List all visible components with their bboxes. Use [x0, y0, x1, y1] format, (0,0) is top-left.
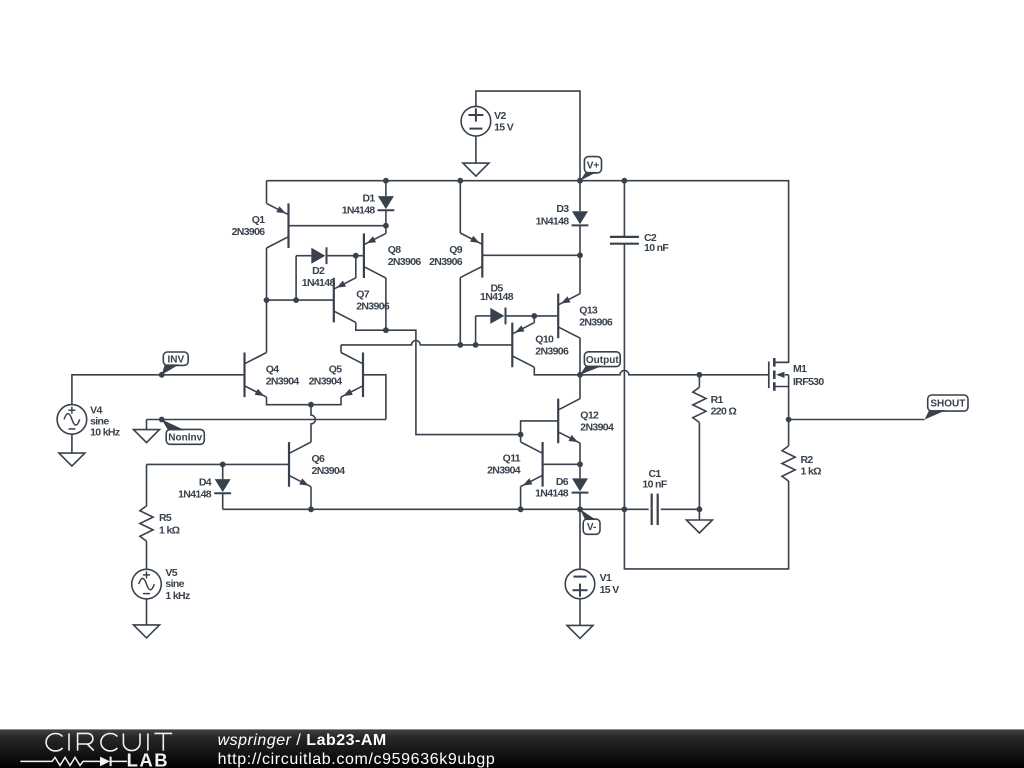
svg-text:sine: sine [90, 415, 109, 427]
svg-text:1N4148: 1N4148 [342, 204, 376, 216]
svg-text:1 kΩ: 1 kΩ [159, 525, 180, 537]
svg-text:D6: D6 [556, 476, 569, 488]
svg-text:220 Ω: 220 Ω [711, 406, 737, 418]
svg-text:V1: V1 [600, 572, 612, 584]
svg-text:2N3906: 2N3906 [535, 345, 569, 357]
svg-text:Q6: Q6 [312, 453, 326, 465]
svg-text:1 kΩ: 1 kΩ [801, 466, 822, 478]
svg-text:R2: R2 [801, 454, 814, 466]
svg-text:2N3906: 2N3906 [388, 256, 422, 268]
svg-text:Q12: Q12 [580, 409, 599, 421]
svg-text:2N3904: 2N3904 [266, 375, 300, 387]
svg-text:1N4148: 1N4148 [178, 488, 212, 500]
svg-text:2N3904: 2N3904 [312, 465, 346, 477]
svg-text:D2: D2 [312, 265, 325, 277]
svg-text:D3: D3 [556, 203, 569, 215]
svg-text:Output: Output [586, 355, 619, 366]
svg-text:M1: M1 [793, 363, 807, 375]
svg-text:1N4148: 1N4148 [535, 488, 569, 500]
svg-text:Q4: Q4 [266, 363, 280, 375]
svg-text:R5: R5 [159, 512, 172, 524]
svg-text:IRF530: IRF530 [793, 376, 824, 388]
svg-text:V+: V+ [587, 160, 600, 171]
svg-text:R1: R1 [711, 394, 724, 406]
svg-text:10 nF: 10 nF [642, 479, 667, 491]
svg-text:Q10: Q10 [535, 333, 554, 345]
svg-text:1N4148: 1N4148 [302, 277, 336, 289]
svg-text:NonInv: NonInv [168, 433, 202, 444]
svg-text:10 kHz: 10 kHz [90, 427, 120, 439]
svg-text:15 V: 15 V [600, 584, 620, 596]
svg-text:Q13: Q13 [579, 304, 598, 316]
svg-text:Q11: Q11 [503, 453, 521, 465]
svg-text:1 kHz: 1 kHz [165, 590, 190, 602]
svg-text:1N4148: 1N4148 [480, 291, 514, 303]
svg-text:D4: D4 [199, 477, 212, 489]
svg-text:2N3906: 2N3906 [356, 301, 390, 313]
svg-text:10 nF: 10 nF [644, 242, 669, 254]
svg-text:V-: V- [587, 522, 596, 533]
svg-text:D1: D1 [362, 193, 375, 205]
svg-text:2N3906: 2N3906 [579, 316, 613, 328]
svg-text:INV: INV [167, 354, 184, 365]
svg-text:Q7: Q7 [356, 289, 370, 301]
svg-text:Q9: Q9 [449, 244, 463, 256]
svg-text:V2: V2 [494, 110, 506, 122]
svg-text:1N4148: 1N4148 [536, 215, 570, 227]
svg-text:2N3906: 2N3906 [429, 256, 463, 268]
svg-text:SHOUT: SHOUT [930, 399, 965, 410]
svg-text:15 V: 15 V [494, 122, 514, 134]
svg-text:2N3904: 2N3904 [580, 421, 614, 433]
svg-text:2N3906: 2N3906 [232, 226, 266, 238]
svg-text:Q8: Q8 [388, 244, 402, 256]
svg-text:sine: sine [165, 578, 184, 590]
svg-text:Q5: Q5 [329, 363, 343, 375]
svg-text:LAB: LAB [127, 750, 170, 768]
svg-text:Q1: Q1 [252, 214, 266, 226]
svg-text:2N3904: 2N3904 [487, 465, 521, 477]
svg-text:2N3904: 2N3904 [309, 375, 343, 387]
